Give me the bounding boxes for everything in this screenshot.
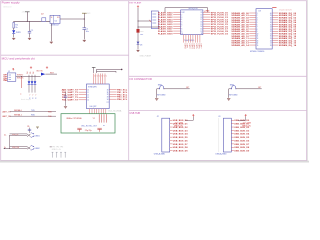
U3 right pin 10: [272, 33, 278, 35]
svg-text:nc: nc: [103, 125, 105, 127]
ground led: [12, 37, 15, 39]
U3 right pin 4: [272, 19, 278, 21]
J2 pin 6: [170, 136, 173, 138]
svg-text:OUT0: OUT0: [183, 43, 185, 48]
svg-text:USB_BUS_D8: USB_BUS_D8: [234, 147, 250, 149]
U2 bottom pin 2: [185, 35, 187, 43]
svg-text:U1: U1: [55, 21, 57, 23]
svg-text:USB_BUS_D9: USB_BUS_D9: [173, 151, 189, 153]
mcu left pins: [79, 89, 87, 91]
U3 left pin 12: [249, 37, 256, 39]
svg-text:USB_BUS_D4: USB_BUS_D4: [234, 133, 250, 136]
svg-text:boot straps: boot straps: [21, 98, 31, 101]
U3 left pin 7: [249, 26, 256, 28]
svg-text:34: 34: [270, 27, 272, 29]
ground SW2: [227, 98, 230, 100]
U2 left pin 10: [173, 32, 181, 34]
U2 right pin 7: [203, 25, 210, 27]
svg-text:g: g: [35, 98, 36, 100]
svg-text:D6: D6: [33, 72, 35, 74]
J3 pin 2: [231, 123, 234, 125]
U3 left pin 2: [249, 14, 256, 16]
U2 bottom pin 1: [183, 35, 185, 43]
J3 pin 9: [231, 146, 234, 148]
power arrow J2: [192, 114, 194, 116]
svg-text:D4: D4: [27, 72, 29, 74]
U3 left pin 8: [249, 28, 256, 30]
svg-text:XT: XT: [107, 102, 109, 104]
svg-text:35: 35: [270, 24, 272, 26]
svg-text:SDRAM_AD_14: SDRAM_AD_14: [231, 44, 249, 47]
svg-text:29: 29: [270, 38, 272, 40]
ic U3 sram: [256, 9, 272, 49]
svg-text:39: 39: [270, 15, 272, 17]
resistor R1: [13, 21, 15, 22]
ground C2: [83, 39, 86, 41]
J1 pin 2: [5, 76, 7, 78]
svg-text:STM32F0: STM32F0: [88, 86, 98, 88]
svg-text:TXD: TXD: [31, 110, 35, 112]
regulator U1: [50, 15, 60, 23]
crystal Y1: [151, 11, 158, 29]
svg-text:USB_BUS_D7: USB_BUS_D7: [234, 144, 250, 146]
wire J1 out: [16, 76, 41, 78]
svg-text:33: 33: [107, 97, 109, 99]
svg-text:UART_TX: UART_TX: [2, 111, 11, 114]
crystal caps: [77, 127, 81, 129]
wire branch right: [138, 26, 161, 28]
wire SW1 gnd: [156, 89, 158, 98]
mcu U4: [87, 84, 110, 109]
usb pair 1 conn: [31, 133, 34, 138]
U3 right pin 15: [272, 44, 278, 46]
U2 left pin 2: [173, 14, 181, 16]
J2 pin 9: [170, 146, 173, 148]
svg-text:USB-A-SMD: USB-A-SMD: [154, 153, 166, 156]
U2 left pin 4: [173, 18, 181, 20]
svg-text:KEY-SMD: KEY-SMD: [229, 95, 238, 97]
test points: [52, 151, 54, 153]
svg-text:13: 13: [257, 40, 259, 42]
svg-text:+3V3: +3V3: [86, 13, 90, 15]
svg-text:D5: D5: [30, 72, 32, 74]
page right edge: [307, 0, 309, 161]
svg-text:6: 6: [257, 24, 258, 26]
svg-text:14: 14: [257, 43, 259, 45]
wire SW2 out: [236, 88, 262, 90]
section divider left horizontal: [1, 54, 129, 56]
svg-text:SWDIO: SWDIO: [17, 75, 24, 77]
svg-text:OUT2: OUT2: [188, 43, 190, 48]
J1 pin 3: [5, 78, 7, 80]
U2 right pin 1: [203, 11, 210, 13]
U2 left pin 1: [173, 11, 181, 13]
J3 pin 8: [231, 143, 234, 145]
U3 right pin 8: [272, 28, 278, 30]
faint divider usb: [218, 118, 220, 152]
svg-text:33: 33: [270, 29, 272, 31]
wire to crystal: [138, 20, 151, 22]
U2 bottom pin 3: [187, 35, 189, 43]
U3 left pin 9: [249, 30, 256, 32]
svg-text:USB_BUS_D6: USB_BUS_D6: [234, 140, 250, 142]
U3 left pin 13: [249, 39, 256, 41]
svg-text:USB_DP: USB_DP: [12, 134, 20, 136]
diode D3: [137, 42, 140, 45]
svg-text:20: 20: [201, 12, 203, 14]
switch SW2: [229, 88, 232, 90]
svg-text:U3: U3: [258, 11, 260, 13]
connector J1: [7, 73, 15, 81]
J2 pin 5: [170, 133, 173, 135]
ground U1: [50, 41, 53, 43]
wire mcu vdd: [97, 68, 122, 70]
svg-text:30: 30: [270, 36, 272, 38]
capacitor C2: [83, 19, 85, 28]
svg-text:RX0: RX0: [48, 112, 52, 114]
usb pair 2 conn: [31, 145, 34, 150]
svg-text:USB1: USB1: [34, 135, 40, 137]
wire U2 vcc rail: [165, 7, 208, 9]
svg-text:GND D+ D-: GND D+ D-: [52, 149, 62, 151]
svg-text:g: g: [32, 98, 33, 100]
usb stub left: [4, 147, 10, 149]
svg-text:38: 38: [270, 17, 272, 19]
svg-text:15: 15: [201, 24, 203, 26]
section divider right horizontal 1: [129, 75, 307, 77]
U2 bottom pin 5: [192, 35, 194, 43]
svg-text:D3: D3: [140, 44, 142, 46]
svg-text:UART_RX: UART_RX: [2, 115, 12, 118]
wire U1 gnd: [50, 24, 52, 42]
U3 right pin 5: [272, 21, 278, 23]
wire Vin: [14, 20, 50, 22]
svg-text:OUT3: OUT3: [190, 43, 192, 48]
svg-text:Y2: Y2: [93, 118, 95, 120]
svg-text:MCU and peripherals ckt: MCU and peripherals ckt: [2, 56, 35, 60]
U2 right pin 8: [203, 28, 210, 30]
svg-text:OSC_IN OSC_OUT: OSC_IN OSC_OUT: [81, 125, 98, 127]
svg-text:2: 2: [257, 15, 258, 17]
J2 pin 7: [170, 140, 173, 142]
svg-text:1: 1: [257, 13, 258, 15]
U3 right pin 13: [272, 39, 278, 41]
svg-text:USB_DM: USB_DM: [12, 147, 20, 149]
U3 left pin 11: [249, 35, 256, 37]
svg-text:PA0_UART_TX: PA0_UART_TX: [62, 89, 78, 92]
svg-text:#: #: [29, 94, 30, 96]
svg-text:USB_BUS_D7: USB_BUS_D7: [173, 144, 189, 146]
section divider right horizontal 2: [129, 110, 307, 112]
svg-text:10u: 10u: [86, 31, 89, 33]
svg-text:J1: J1: [8, 71, 10, 73]
U2 right pin 5: [203, 21, 210, 23]
usb pair 2 wires: [10, 146, 27, 148]
svg-text:OUT5: OUT5: [195, 43, 197, 48]
wires into green box: [98, 114, 100, 122]
U3 right pin 11: [272, 35, 278, 37]
svg-text:8: 8: [257, 29, 258, 31]
svg-text:27: 27: [270, 43, 272, 45]
ground flash: [136, 49, 139, 51]
U2 left pin 3: [173, 16, 181, 18]
svg-text:18: 18: [201, 17, 203, 19]
ground C5: [64, 106, 67, 108]
U2 bottom pin 7: [197, 35, 199, 43]
power arrows mcu left: [30, 67, 32, 69]
svg-text:OUT1: OUT1: [186, 43, 188, 48]
mcu bottom pins: [89, 109, 91, 114]
U2 left pin 9: [173, 30, 181, 32]
svg-text:GND_FLASH: GND_FLASH: [140, 54, 152, 57]
U3 left pin 6: [249, 23, 256, 25]
vertical join usb: [9, 136, 11, 149]
svg-text:7: 7: [257, 27, 258, 29]
svg-text:PA4_UART_TX: PA4_UART_TX: [62, 99, 78, 102]
svg-text:USB_BUS_D3: USB_BUS_D3: [173, 130, 189, 132]
svg-text:FB1: FB1: [140, 31, 143, 33]
svg-text:28: 28: [270, 40, 272, 42]
svg-text:USB2: USB2: [34, 148, 40, 150]
svg-text:37: 37: [270, 20, 272, 22]
J2 pin 8: [170, 143, 173, 145]
svg-text:FLASH_SIO9: FLASH_SIO9: [158, 32, 173, 35]
J2 pin 2: [170, 123, 173, 125]
U2 right pin 10: [203, 32, 210, 34]
svg-text:I2C1_SCL/SDA: I2C1_SCL/SDA: [108, 110, 122, 113]
svg-text:10: 10: [181, 33, 183, 35]
U2 right pin 6: [203, 23, 210, 25]
svg-text:VBUS_IN: VBUS_IN: [242, 126, 251, 128]
J2 pin 10: [170, 150, 173, 152]
svg-text:VBUS_IN: VBUS_IN: [174, 126, 183, 128]
svg-text:TX0: TX0: [48, 116, 51, 118]
wire mcu vdda: [97, 70, 117, 72]
led D1: [13, 28, 15, 30]
svg-text:#: #: [35, 94, 36, 96]
svg-text:SPI2_FLSH_C9: SPI2_FLSH_C9: [211, 33, 229, 35]
svg-text:11: 11: [201, 33, 203, 35]
svg-text:OUT4: OUT4: [193, 43, 195, 48]
svg-text:USB_BUS_D9: USB_BUS_D9: [234, 151, 250, 153]
U3 left pin 10: [249, 33, 256, 35]
svg-text:U2: U2: [182, 12, 184, 14]
svg-text:9: 9: [257, 31, 258, 33]
svg-text:DQ[15:0] BUS: DQ[15:0] BUS: [279, 10, 292, 12]
U2 left pin 5: [173, 21, 181, 23]
svg-text:13: 13: [201, 29, 203, 31]
U3 left pin 15: [249, 44, 256, 46]
svg-text:12: 12: [257, 38, 259, 40]
page bottom edge: [0, 160, 309, 162]
svg-text:32: 32: [270, 31, 272, 33]
J3 pin 4: [231, 129, 234, 131]
svg-text:31: 31: [107, 92, 109, 94]
J3 pin 5: [231, 133, 234, 135]
svg-text:USB_BUS_D4: USB_BUS_D4: [173, 133, 189, 136]
U3 right pin 9: [272, 30, 278, 32]
capacitor C1: [29, 21, 31, 31]
U3 left pin 5: [249, 21, 256, 23]
net stub down: [21, 77, 23, 89]
svg-text:31: 31: [270, 33, 272, 35]
U2 bottom pin 4: [190, 35, 192, 43]
svg-text:USB HUB: USB HUB: [129, 112, 140, 115]
usb pair 2 twist: [27, 147, 31, 150]
svg-text:SDRAM_DQ_14: SDRAM_DQ_14: [279, 44, 297, 47]
svg-text:USB-A-SMD: USB-A-SMD: [215, 153, 227, 156]
svg-text:30: 30: [107, 89, 109, 91]
U3 right pin 3: [272, 17, 278, 19]
U3 right pin 12: [272, 37, 278, 39]
J1 pin 1: [5, 74, 7, 76]
J2 pin 3: [170, 126, 173, 128]
svg-text:19: 19: [201, 15, 203, 17]
svg-text:W25Q128: W25Q128: [189, 8, 199, 10]
U2 left pin 8: [173, 28, 181, 30]
svg-text:C5: C5: [62, 90, 64, 92]
svg-text:14: 14: [87, 100, 89, 102]
svg-text:OUT7: OUT7: [200, 43, 202, 48]
svg-text:USB_BUS_D8: USB_BUS_D8: [173, 147, 189, 149]
svg-text:12: 12: [201, 31, 203, 33]
svg-text:AMS1117: AMS1117: [51, 24, 60, 27]
usb pair 1 twist: [27, 134, 31, 137]
U2 right pin 9: [203, 30, 210, 32]
power arrow VCC flash: [137, 6, 139, 8]
power flag +3V3: [82, 12, 87, 14]
svg-text:EXT FLASH: EXT FLASH: [129, 1, 141, 4]
svg-text:U4 QFP: U4 QFP: [90, 106, 98, 108]
mcu right pins: [109, 89, 116, 91]
wire SW1 out: [164, 88, 190, 90]
U2 right pin 2: [203, 14, 210, 16]
power flag mcu top: [92, 66, 96, 68]
U3 right pin 1: [272, 12, 278, 14]
svg-text:8MHz CRYSTAL: 8MHz CRYSTAL: [67, 117, 83, 120]
svg-text:#: #: [32, 94, 33, 96]
power arrow J3: [245, 114, 247, 116]
svg-text:PWR: PWR: [16, 32, 21, 34]
U3 right pin 7: [272, 26, 278, 28]
svg-text:SWCLK: SWCLK: [17, 77, 24, 79]
J1 inner marks: [9, 74, 11, 76]
mcu top pins: [93, 74, 95, 85]
J1 pin 4: [5, 79, 7, 81]
test point labels: [50, 146, 52, 148]
svg-text:10: 10: [87, 89, 89, 91]
svg-text:+5V_USB: +5V_USB: [174, 122, 184, 124]
svg-text:40: 40: [270, 13, 272, 15]
U2 right pin 3: [203, 16, 210, 18]
U3 left pin 4: [249, 19, 256, 21]
svg-text:12: 12: [87, 95, 89, 97]
power flag +5V: [25, 11, 30, 13]
svg-text:3: 3: [257, 17, 258, 19]
svg-text:PB4_SCL: PB4_SCL: [117, 98, 128, 101]
svg-text:USB_BUS_D5: USB_BUS_D5: [234, 137, 250, 139]
wire Vout: [60, 18, 84, 20]
U2 bottom pin 6: [194, 35, 196, 43]
svg-text:4: 4: [257, 20, 258, 22]
svg-text:26: 26: [270, 45, 272, 47]
svg-text:13: 13: [87, 97, 89, 99]
green note box: [61, 114, 115, 133]
J2 pin 4: [170, 129, 173, 131]
svg-text:11: 11: [257, 36, 259, 38]
svg-text:BOOT0: BOOT0: [37, 70, 43, 72]
svg-text:MT48LC16M16: MT48LC16M16: [250, 51, 265, 53]
usb pair 1 wires: [10, 133, 27, 135]
wire flash vcc vertical: [137, 8, 139, 50]
U3 left pin 1: [249, 12, 256, 14]
J2 pin 1: [170, 119, 173, 121]
U3 right pin 6: [272, 23, 278, 25]
J3 pin 3: [231, 126, 234, 128]
svg-text:32: 32: [107, 94, 109, 96]
U2 bottom pin 8: [199, 35, 201, 43]
svg-text:RXD: RXD: [31, 115, 36, 117]
svg-text:16: 16: [201, 22, 203, 24]
svg-text:22p 22p: 22p 22p: [85, 130, 92, 132]
svg-text:600: 600: [140, 34, 143, 36]
svg-text:5: 5: [257, 22, 258, 24]
U3 left pin 14: [249, 42, 256, 44]
svg-text:USB_BUS_D3: USB_BUS_D3: [234, 130, 250, 132]
section divider vertical: [128, 1, 130, 161]
ferrite bead FB1: [137, 29, 140, 32]
svg-text:I/O CONNECTOR: I/O CONNECTOR: [129, 77, 151, 81]
svg-text:14: 14: [201, 26, 203, 28]
U3 left pin 3: [249, 17, 256, 19]
ic U2 flash: [181, 10, 203, 35]
ground SW1: [155, 98, 158, 100]
svg-text:34: 34: [107, 99, 109, 101]
U2 left pin 7: [173, 25, 181, 27]
svg-text:USB_BUS_D6: USB_BUS_D6: [173, 140, 189, 142]
svg-text:Power supply: Power supply: [2, 1, 21, 5]
sheet border: [1, 1, 307, 161]
switch SW1: [157, 88, 160, 90]
svg-text:R5: R5: [27, 126, 29, 128]
power stub U3: [272, 7, 276, 9]
svg-text:11: 11: [87, 92, 89, 94]
svg-text:PA1_UART_TX: PA1_UART_TX: [62, 91, 78, 94]
U3 right pin 14: [272, 42, 278, 44]
U2 left pin 6: [173, 23, 181, 25]
ground C1: [28, 37, 31, 39]
svg-text:15: 15: [257, 45, 259, 47]
svg-text:USB_BUS_D5: USB_BUS_D5: [173, 137, 189, 139]
J3 pin 7: [231, 140, 234, 142]
svg-text:KEY-SMD: KEY-SMD: [157, 95, 166, 97]
svg-text:OUT6: OUT6: [197, 43, 199, 48]
svg-text:17: 17: [201, 19, 203, 21]
U2 right pin 4: [203, 18, 210, 20]
J3 pin 6: [231, 136, 234, 138]
svg-text:36: 36: [270, 22, 272, 24]
svg-text:SERIAL0: SERIAL0: [14, 109, 22, 112]
svg-text:3V3 LDO: 3V3 LDO: [3, 7, 12, 9]
svg-text:SERIAL1: SERIAL1: [14, 114, 22, 117]
svg-text:+5V_USB: +5V_USB: [242, 122, 252, 124]
svg-text:10: 10: [257, 33, 259, 35]
J3 pin 10: [231, 150, 234, 152]
U3 right pin 2: [272, 14, 278, 16]
J3 pin 1: [231, 119, 234, 121]
wire SW2 gnd: [228, 89, 230, 98]
